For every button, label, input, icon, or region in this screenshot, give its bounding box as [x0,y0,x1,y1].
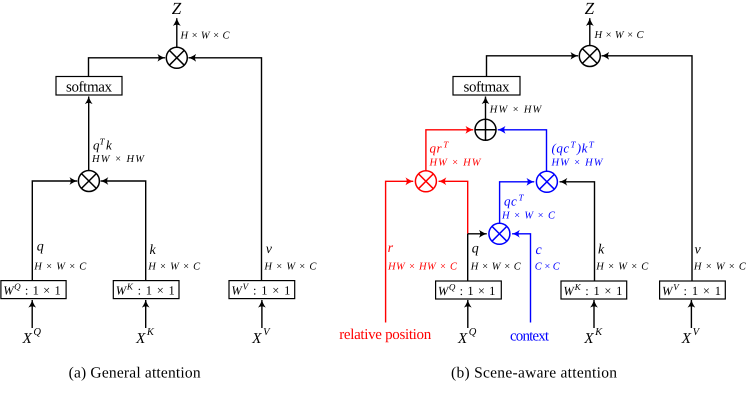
svg-text:HW × HW × C: HW × HW × C [387,261,458,272]
svg-text:(a) General attention: (a) General attention [69,364,201,381]
wire q black from WQ box (b) [467,234,469,281]
add node plus (b) [475,119,496,140]
svg-text:qcT: qcT [504,193,524,209]
wire softmax to top multiply (b) [487,56,579,77]
multiply node top (a) [166,47,187,68]
wire q black into lower blue multiply (b) [468,233,487,235]
wire XV input arrow (a) [261,300,263,328]
svg-text:C × C: C × C [535,261,561,272]
wire add node to softmax (b) [485,97,487,119]
wire q to mid multiply (a) [32,181,77,280]
wire v branch to top multiply (b) [602,56,693,281]
box WV (a) [229,281,295,299]
svg-text:v: v [695,243,702,258]
svg-text:H × W × C: H × W × C [263,261,317,272]
svg-text:H × W × C: H × W × C [147,261,201,272]
svg-text:q: q [472,242,479,257]
svg-text:XV: XV [681,327,701,347]
svg-text:XK: XK [135,327,155,347]
svg-text:(b) Scene-aware attention: (b) Scene-aware attention [451,364,617,381]
svg-text:c: c [536,243,543,258]
svg-text:H × W × C: H × W × C [693,262,747,273]
svg-text:H × W × C: H × W × C [594,30,645,41]
wire k black into upper blue multiply (b) [560,182,595,281]
multiply node red (b) [415,171,436,192]
multiply node top (b) [579,46,600,67]
box WV (b) [660,281,726,299]
svg-text:(qcT)kT: (qcT)kT [552,140,595,156]
svg-text:WK : 1 × 1: WK : 1 × 1 [563,282,622,298]
wire qcT blue into upper blue multiply (b) [500,182,535,223]
svg-text:q: q [37,240,44,255]
svg-text:HW × HW: HW × HW [91,154,145,165]
box WK (a) [113,281,179,299]
svg-text:qrT: qrT [430,140,450,156]
wire c blue into lower blue multiply (b) [512,234,530,323]
svg-text:WV : 1 × 1: WV : 1 × 1 [231,282,290,298]
svg-text:WK : 1 × 1: WK : 1 × 1 [116,282,175,298]
wire mid multiply to softmax (a) [88,97,90,171]
wire k to mid multiply (a) [101,181,146,280]
svg-text:HW × HW: HW × HW [489,105,543,116]
svg-text:XQ: XQ [457,327,477,347]
wire XV input arrow (b) [690,300,692,328]
svg-text:H × W × C: H × W × C [33,261,87,272]
svg-text:XQ: XQ [22,327,42,347]
svg-text:softmax: softmax [66,80,113,96]
svg-text:H × W × C: H × W × C [501,211,556,222]
svg-text:relative position: relative position [339,327,432,343]
wire red qrT to add node (b) [426,130,473,171]
wire XQ input arrow (a) [31,300,33,328]
svg-text:WQ : 1 × 1: WQ : 1 × 1 [438,282,496,298]
wire XK input arrow (b) [593,300,595,328]
svg-text:r: r [388,241,394,256]
wire v branch to top multiply (a) [189,58,262,280]
svg-text:Z: Z [585,0,595,18]
svg-text:context: context [510,329,550,345]
multiply node mid (a) [78,171,99,192]
svg-text:qTk: qTk [93,137,112,153]
wire XK input arrow (a) [145,300,147,328]
multiply node blue lower (b) [489,223,510,244]
box WQ (a) [1,281,66,299]
box softmax (a) [56,77,122,96]
svg-text:H × W × C: H × W × C [180,31,231,42]
svg-text:H × W × C: H × W × C [470,261,522,272]
svg-text:v: v [266,242,273,257]
wire blue qcTkT to add node (b) [498,130,547,171]
svg-text:k: k [150,243,157,258]
svg-text:WQ : 1 × 1: WQ : 1 × 1 [3,282,61,298]
multiply node blue upper (b) [536,171,557,192]
wire output arrow to Z (a) [176,18,178,47]
wire softmax to top multiply (a) [89,58,166,77]
svg-text:HW × HW: HW × HW [429,158,482,169]
svg-text:softmax: softmax [464,80,511,96]
box WK (b) [561,281,627,299]
svg-text:HW × HW: HW × HW [551,158,604,169]
svg-text:H × W × C: H × W × C [595,262,649,273]
wire q red into red multiply right (b) [439,181,468,234]
wire r red into red multiply (b) [386,181,414,322]
wire XQ input arrow (b) [467,300,469,328]
svg-text:XK: XK [583,327,603,347]
svg-text:Z: Z [172,0,182,18]
wire output arrow to Z (b) [589,18,591,45]
box softmax (b) [453,77,520,96]
svg-text:WV : 1 × 1: WV : 1 × 1 [662,282,721,298]
svg-text:k: k [598,243,605,258]
box WQ (b) [436,281,502,299]
svg-text:XV: XV [251,327,271,347]
